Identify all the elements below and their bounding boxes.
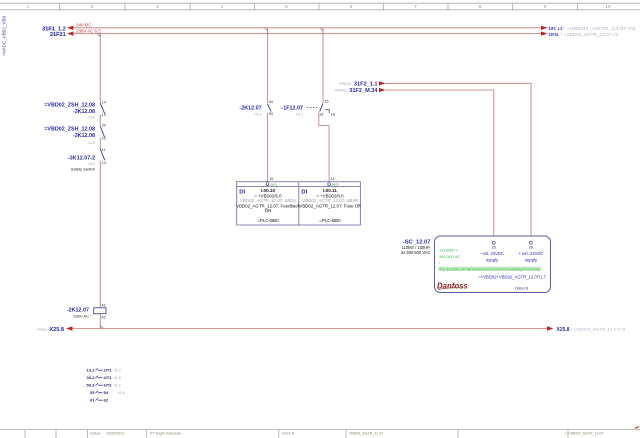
svg-text:PT Nogtii Indonesia: PT Nogtii Indonesia (150, 431, 181, 435)
contact -3K12.08 (24/23) (44, 124, 106, 145)
svg-text:=/1.2: =/1.2 (254, 112, 262, 116)
svg-text:BB01: BB01 (271, 183, 278, 187)
svg-text:14: 14 (102, 161, 106, 165)
DI channel I.00.11 terminal (328, 183, 340, 187)
svg-text:=+VBD02+VBD02_AGTR_12.07/1.7: =+VBD02+VBD02_AGTR_12.07/1.7 (478, 275, 546, 280)
svg-text:5/L3: 5/L3 (86, 383, 95, 388)
svg-text:=/3.5: =/3.5 (117, 391, 125, 395)
svg-text:23: 23 (102, 137, 106, 141)
svg-text:54: 54 (269, 100, 273, 104)
dest arrow 31F1_1.2 (right) (541, 26, 636, 32)
svg-text:1/L1: 1/L1 (86, 368, 95, 373)
svg-text:Safety Switch: Safety Switch (71, 167, 95, 172)
svg-text:Option B: Option B (515, 287, 529, 291)
svg-text:DI: DI (239, 189, 245, 195)
junction 24V wire x=267.5 (265, 28, 268, 31)
svg-text:18: 18 (331, 112, 335, 116)
svg-text:2/T1: 2/T1 (104, 368, 113, 373)
svg-text:21F31: 21F31 (50, 32, 66, 38)
svg-text:VBD02_AGTR_12.07; XB0U: VBD02_AGTR_12.07; XB0U (240, 198, 297, 203)
svg-text:/ =VBD02_AGTR_13.07+/3: / =VBD02_AGTR_13.07+/3 (563, 26, 636, 31)
svg-text:supply: supply (486, 258, 499, 263)
svg-text:131SB077: 131SB077 (439, 247, 458, 252)
svg-text:VBD02_AGTR_12.07: VBD02_AGTR_12.07 (349, 431, 383, 435)
svg-text:=VBD02_ZSH_12.08: =VBD02_ZSH_12.08 (44, 102, 95, 108)
wire branch x=267.5 down (267, 28, 269, 104)
source arrow 21F31 (left) (50, 31, 74, 38)
svg-text:VBD02_AGTR_12.07; Fuse Off: VBD02_AGTR_12.07; Fuse Off (299, 204, 361, 209)
svg-text:36: 36 (529, 245, 533, 249)
svg-text:+PS/19./: +PS/19./ (339, 82, 352, 86)
wire (99, 114, 101, 126)
svg-text:=/4.2: =/4.2 (87, 162, 95, 166)
svg-text:-3K12.08: -3K12.08 (73, 109, 95, 115)
svg-text:380-500 AC: 380-500 AC (439, 254, 460, 259)
svg-text:10: 10 (269, 177, 273, 181)
drive terminal 35 (480, 241, 504, 262)
svg-text:+PS/19./: +PS/19./ (334, 89, 347, 93)
svg-text:- ext. 24VDC: - ext. 24VDC (480, 251, 504, 256)
svg-text:=VACC_VB02_VB0: =VACC_VB02_VB0 (2, 15, 7, 56)
wire: branch down x=100 (99, 34, 101, 105)
svg-text:PG 3G256+1/P7BG0H4AG0XXXXXXXXA: PG 3G256+1/P7BG0H4AG0XXXXXXXXAAABQXXXXXX… (440, 267, 540, 271)
svg-text:-3K12.08: -3K12.08 (73, 133, 95, 139)
source arrow 31F2_1.1 (339, 81, 386, 87)
svg-text:/ =VBD02_AGTR_13.07+/3: / =VBD02_AGTR_13.07+/3 (571, 327, 626, 332)
wire step down to DI2 (319, 113, 329, 183)
source arrow 31F2_M.34 (334, 88, 385, 94)
svg-text:-3K12.07-2: -3K12.07-2 (68, 155, 95, 161)
svg-text:DI: DI (301, 189, 307, 195)
svg-text:X25.8: X25.8 (49, 327, 64, 333)
svg-text:3x 380-500 VAC: 3x 380-500 VAC (401, 250, 431, 255)
junction 24V wire x=323 (320, 28, 323, 31)
svg-text:24V DC: 24V DC (76, 23, 91, 28)
svg-text:62: 62 (104, 398, 109, 403)
svg-text:11: 11 (102, 148, 106, 152)
svg-text:10: 10 (606, 4, 611, 9)
svg-text:-2K12.07: -2K12.07 (239, 106, 261, 112)
svg-text:-1F12.07: -1F12.07 (281, 106, 303, 112)
svg-text:A1: A1 (101, 304, 105, 308)
svg-text:19/06/2013: 19/06/2013 (106, 431, 124, 435)
junction at 230V wire x=100 (97, 34, 100, 37)
svg-text:15: 15 (325, 100, 329, 104)
drive -SC_12.07 labels (401, 239, 431, 255)
wire down to DI1 (267, 113, 269, 183)
svg-text:=/1.1: =/1.1 (295, 112, 303, 116)
svg-text:35: 35 (492, 245, 496, 249)
svg-text:53: 53 (269, 112, 273, 116)
drive green data (439, 247, 460, 265)
svg-text:21F31: 21F31 (549, 32, 559, 38)
red corner mark (634, 426, 640, 429)
source arrow X25.8 (left) (37, 326, 73, 333)
wire below coil (99, 314, 101, 329)
svg-text:=/1.6: =/1.6 (87, 141, 95, 145)
contact -3K12.08 (14/13) (44, 101, 106, 120)
DI channel I.00.10 texts (236, 188, 301, 223)
svg-text:24: 24 (102, 124, 106, 128)
wire X25.8 (72, 328, 548, 330)
svg-text:supply: supply (525, 258, 538, 263)
svg-text:31F2_M.34: 31F2_M.34 (349, 88, 378, 94)
svg-text:53: 53 (90, 390, 95, 395)
coil -2K12.07 (67, 304, 106, 320)
frame: top column ruler (0, 3, 640, 10)
svg-text:+PS/5./: +PS/5./ (37, 328, 48, 332)
svg-text:11: 11 (331, 177, 335, 181)
svg-text:13: 13 (102, 113, 106, 117)
svg-text:6/T3: 6/T3 (104, 383, 113, 388)
svg-text:3/L2: 3/L2 (86, 375, 95, 380)
svg-text:=VBD02_ZSH_12.08: =VBD02_ZSH_12.08 (44, 126, 95, 132)
svg-text:=/1.6: =/1.6 (87, 116, 95, 120)
svg-text:ON: ON (265, 208, 272, 213)
dest arrow 21F31 (right) (541, 31, 619, 38)
drive terminal 36 (518, 241, 543, 262)
wire 31F2_1.1 to drive pin 36 (386, 83, 532, 241)
wire down to coil (99, 161, 101, 308)
DI channel I.00.10 terminal (266, 183, 278, 187)
wire 31F2_M.34 to drive pin 35 (386, 90, 494, 241)
frame: bottom title block (0, 430, 640, 438)
svg-text:A2: A2 (101, 315, 105, 319)
svg-text:/ =VBD02_AGTR_13.07+/3: / =VBD02_AGTR_13.07+/3 (561, 32, 619, 37)
svg-text:230V AC: 230V AC (73, 314, 89, 319)
svg-text:Datum: Datum (90, 431, 101, 435)
junction at X25.8 wire (100, 326, 103, 329)
contact -2K12.07 (54/53) (239, 100, 272, 116)
contact -1F12.07 (15/16/18) (281, 100, 334, 117)
svg-text:X25.8: X25.8 (557, 327, 570, 333)
dest arrow X25.8 (right) (547, 326, 626, 333)
svg-text:31F2_1.1: 31F2_1.1 (354, 82, 378, 88)
svg-text:=+VBD02_AGTR_12.07: =+VBD02_AGTR_12.07 (565, 431, 604, 435)
svg-text:Danfoss: Danfoss (437, 282, 468, 291)
svg-text:BB01: BB01 (332, 183, 339, 187)
svg-text:4/T2: 4/T2 (104, 375, 113, 380)
svg-text:230V AC 6.5: 230V AC 6.5 (76, 29, 101, 34)
svg-text:=/1.2: =/1.2 (113, 369, 121, 373)
source arrow 31F1_1.2 (left) (42, 26, 74, 33)
DI channel I.00.11 texts (299, 188, 361, 223)
svg-text:+ ext. 24VDC: + ext. 24VDC (518, 251, 543, 256)
drive serial highlight (439, 267, 542, 272)
contact -3K12.07-2 (11/14) safety switch (68, 148, 106, 172)
svg-text:14: 14 (102, 101, 106, 105)
svg-text:=/1.2: =/1.2 (113, 376, 121, 380)
wire (99, 138, 101, 149)
wire 230V AC (74, 29, 541, 34)
svg-text:Orion N: Orion N (282, 431, 295, 435)
svg-text:VBD02_AGTR_12.07; XB4B: VBD02_AGTR_12.07; XB4B (302, 198, 358, 203)
drive box -SC_12.07 (435, 236, 551, 293)
svg-text:61: 61 (90, 398, 95, 403)
svg-text:=/1.2: =/1.2 (113, 384, 121, 388)
wire 24V DC (74, 23, 541, 28)
wire branch x=323 down (322, 28, 324, 103)
svg-text:54: 54 (104, 390, 109, 395)
svg-text:16: 16 (319, 112, 323, 116)
svg-text:=PLC-BB0: =PLC-BB0 (257, 218, 279, 223)
contact mirror -2K12.07 (86, 368, 124, 403)
svg-text:=PLC-BB0: =PLC-BB0 (319, 218, 341, 223)
DI box (two channels) (237, 182, 361, 225)
